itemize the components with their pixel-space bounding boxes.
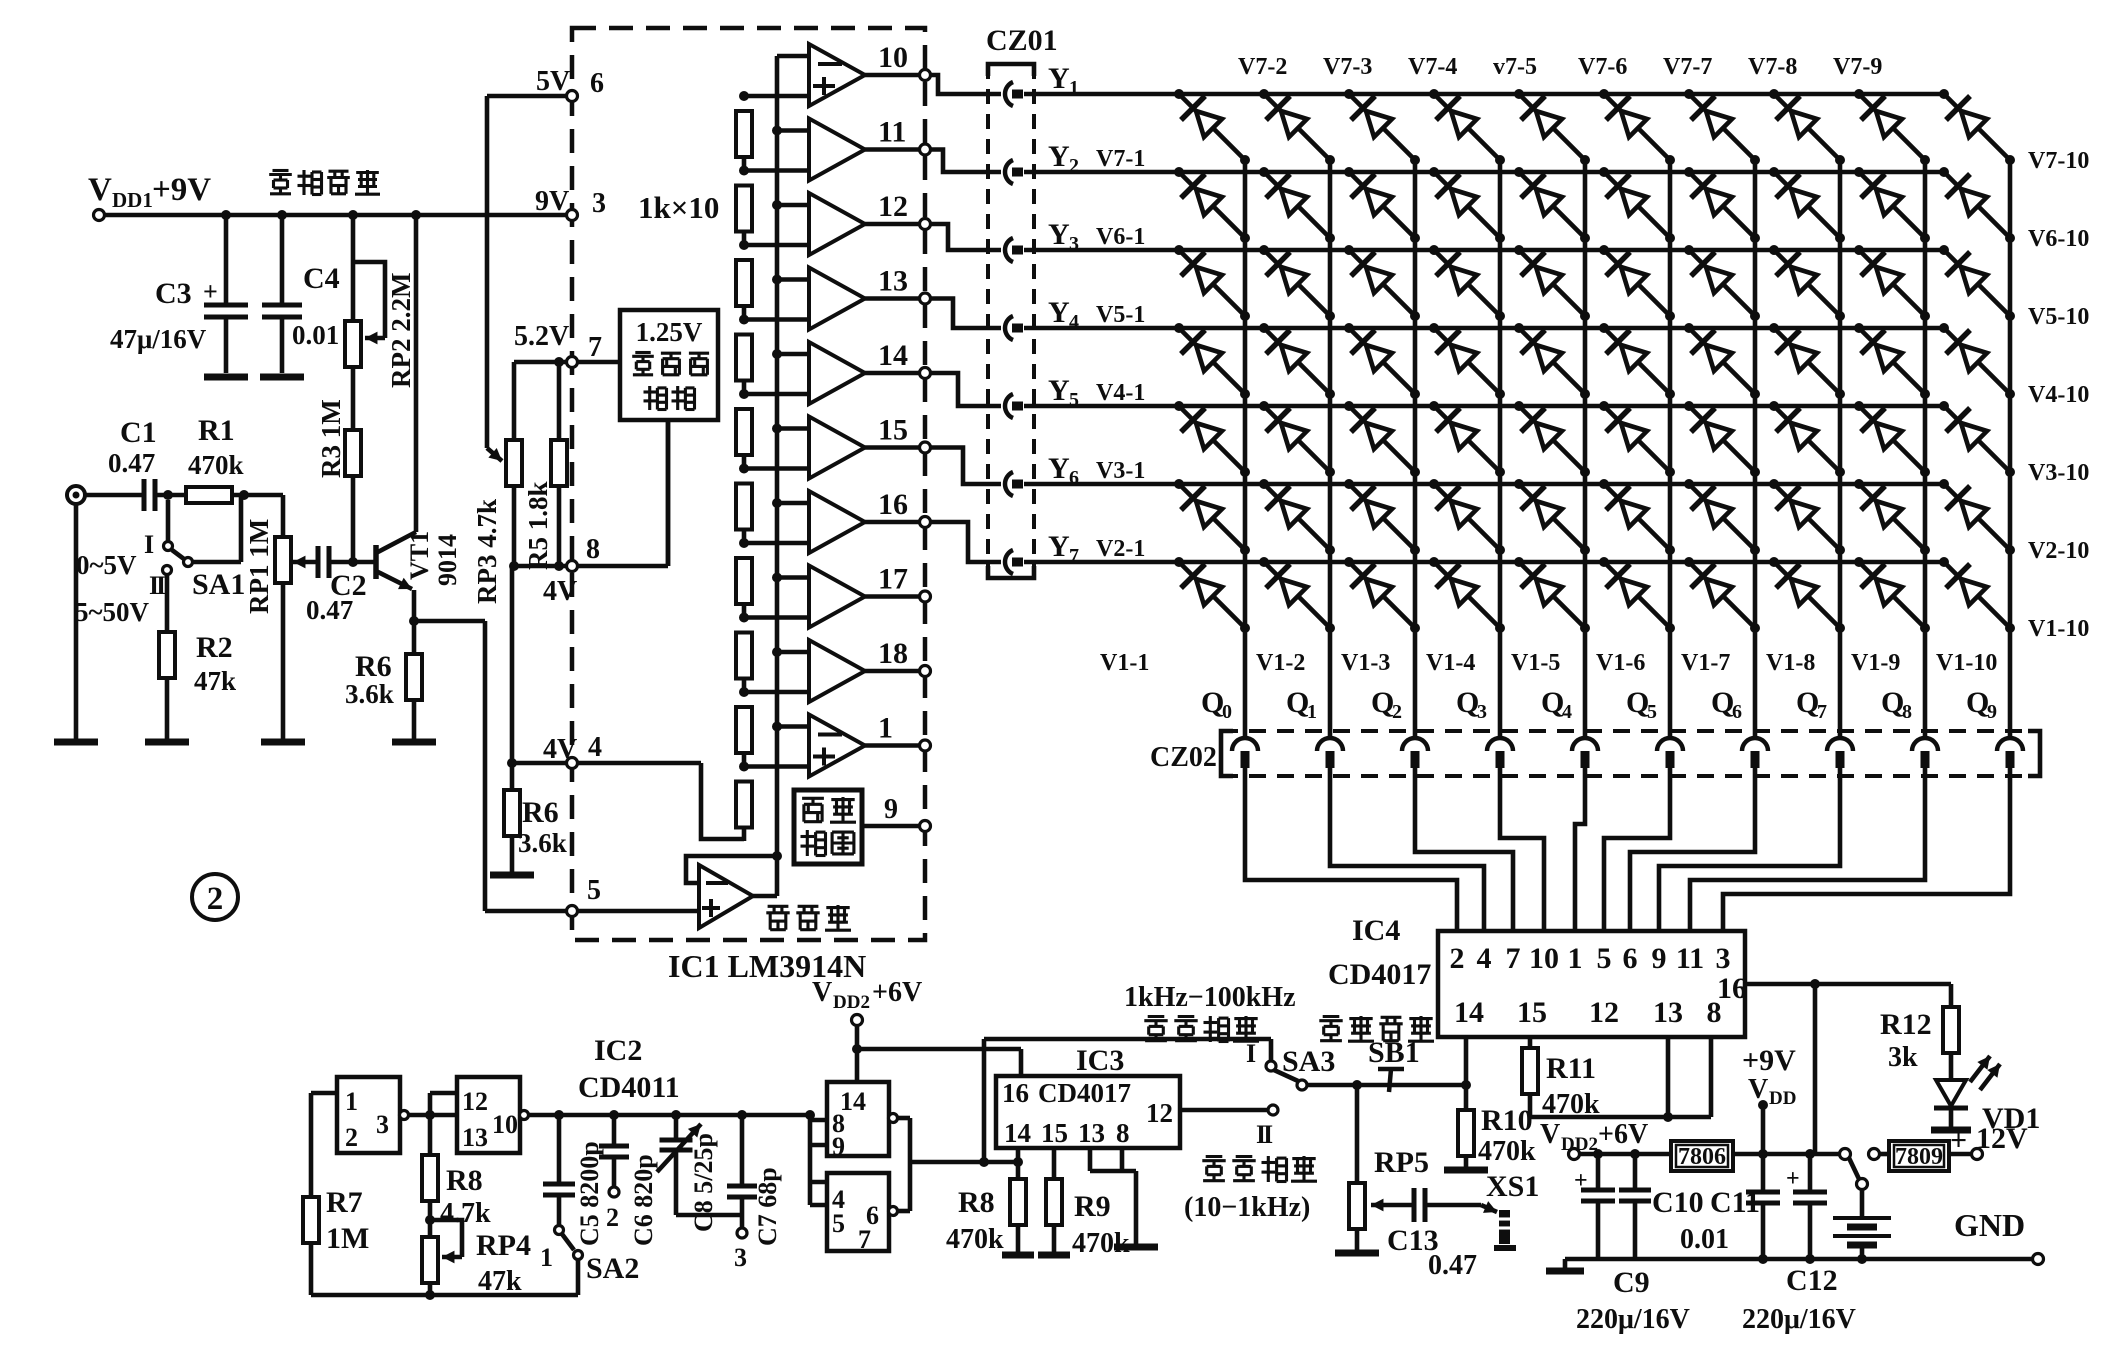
resistor R6 3.6k (emitter) xyxy=(392,621,436,742)
connector CZ01 contact Y3 xyxy=(1005,238,1023,262)
label V7-1 xyxy=(1096,146,1145,172)
label Y4 xyxy=(1048,296,1079,333)
LED V4-8 xyxy=(1769,323,1845,399)
svg-text:C10: C10 xyxy=(1652,1186,1704,1219)
svg-text:R6: R6 xyxy=(522,796,559,829)
wire column Q6 xyxy=(1753,160,1758,737)
LED V5-4 xyxy=(1429,245,1505,321)
svg-text:10: 10 xyxy=(1529,942,1559,975)
svg-text:DD1: DD1 xyxy=(112,188,153,212)
label V5-10 xyxy=(2028,304,2089,330)
LED V7-7 xyxy=(1684,89,1760,165)
label Q4 xyxy=(1541,686,1572,723)
wire pin 13 to Y4 xyxy=(930,299,1001,329)
label V1-9 bottom xyxy=(1851,650,1900,676)
resistor R6 3.6k (lower) xyxy=(490,763,534,875)
LED V5-9 xyxy=(1854,245,1930,321)
svg-text:Q: Q xyxy=(1456,686,1479,719)
resistor R5 1.8k xyxy=(551,357,567,571)
wire Q8 to IC4 pin 11 xyxy=(1690,768,1925,931)
IC3 CD4017 box xyxy=(996,1076,1180,1148)
svg-text:Q: Q xyxy=(1711,686,1734,719)
LED V3-1 xyxy=(1174,401,1250,477)
label range II 5~50V xyxy=(75,571,166,627)
svg-text:0~5V: 0~5V xyxy=(76,550,137,580)
regulator 7809 xyxy=(1869,1141,1983,1171)
svg-text:8: 8 xyxy=(1902,701,1912,723)
wire gate3/4 input bus xyxy=(810,1115,827,1205)
svg-text:Q: Q xyxy=(1201,686,1224,719)
wire row Y5 xyxy=(1024,404,1944,409)
wire gate1 input xyxy=(311,1093,337,1197)
wire column Q5 xyxy=(1668,160,1673,737)
svg-text:470k: 470k xyxy=(1478,1136,1536,1167)
label SA1 xyxy=(192,568,245,601)
label R12 3k xyxy=(1880,1008,1932,1073)
LED V4-4 xyxy=(1429,323,1505,399)
svg-text:5: 5 xyxy=(832,1209,845,1238)
comparator output pin 14 xyxy=(744,342,931,404)
comparator output pin 17 xyxy=(744,566,931,628)
svg-text:I: I xyxy=(144,530,154,559)
capacitor C13 0.47 xyxy=(1414,1188,1481,1222)
connector CZ02 contact Q3 xyxy=(1487,738,1513,768)
wire Q4 to IC4 pin 1 xyxy=(1575,768,1585,931)
label R10 470k xyxy=(1478,1104,1536,1167)
capacitor C2 0.47 xyxy=(318,546,376,578)
LED V6-10 xyxy=(1939,167,2015,243)
wire Q6 to IC4 pin 6 xyxy=(1630,768,1755,931)
label R3 1M xyxy=(316,399,346,478)
svg-text:Q: Q xyxy=(1881,686,1904,719)
svg-text:CD4017: CD4017 xyxy=(1038,1078,1131,1108)
svg-text:V7-10: V7-10 xyxy=(2028,148,2089,174)
LED V4-6 xyxy=(1599,323,1675,399)
pushbutton SB1 xyxy=(1378,1069,1404,1092)
svg-text:V1-4: V1-4 xyxy=(1426,650,1475,676)
label pin 1 xyxy=(878,712,893,745)
svg-text:SA2: SA2 xyxy=(586,1252,639,1285)
label contact II xyxy=(1256,1120,1273,1149)
svg-text:VT1: VT1 xyxy=(405,531,434,580)
svg-text:V: V xyxy=(88,172,112,208)
svg-text:17: 17 xyxy=(878,563,908,596)
label Y1 xyxy=(1048,62,1079,99)
label V1-1 xyxy=(1100,650,1149,676)
svg-text:13: 13 xyxy=(1653,996,1683,1029)
label SA2 and 1 xyxy=(540,1243,639,1285)
wire column Q2 xyxy=(1413,160,1418,737)
connector CZ02 contact Q5 xyxy=(1657,738,1683,768)
LED V1-10 xyxy=(1939,557,2015,633)
label C1 0.47 xyxy=(108,416,157,478)
label v7-5 xyxy=(1493,54,1537,80)
svg-text:V2-1: V2-1 xyxy=(1096,536,1145,562)
svg-text:1.25V: 1.25V xyxy=(636,317,703,347)
svg-text:8: 8 xyxy=(586,534,600,565)
label IC4 xyxy=(1352,914,1400,947)
label 1kHz-100kHz xyxy=(1124,982,1296,1013)
svg-text:1: 1 xyxy=(878,712,893,745)
svg-text:10: 10 xyxy=(878,41,908,74)
svg-text:R9: R9 xyxy=(1074,1190,1111,1223)
label C4 xyxy=(292,262,340,350)
wire row Y3 xyxy=(1024,248,1944,253)
svg-text:2: 2 xyxy=(606,1203,619,1232)
svg-text:6: 6 xyxy=(1732,701,1742,723)
svg-text:SA3: SA3 xyxy=(1282,1045,1335,1078)
svg-text:GND: GND xyxy=(1954,1207,2025,1243)
svg-text:R5 1.8k: R5 1.8k xyxy=(523,481,553,570)
label 1k x10 xyxy=(638,190,719,225)
label pin5 xyxy=(587,875,601,906)
label Q1 xyxy=(1286,686,1317,723)
connector CZ01 outline xyxy=(986,24,1058,578)
label V7-10 xyxy=(2028,148,2089,174)
svg-text:3.6k: 3.6k xyxy=(518,828,567,858)
label Q2 xyxy=(1371,686,1402,723)
LED V2-3 xyxy=(1344,479,1420,555)
label circled 2 xyxy=(192,874,238,920)
capacitor C1 0.47 xyxy=(144,479,186,511)
svg-text:16: 16 xyxy=(1002,1078,1029,1108)
label +12V xyxy=(1950,1122,2028,1157)
wire column Q9 xyxy=(2008,160,2013,737)
input terminal xyxy=(54,486,144,742)
svg-text:R12: R12 xyxy=(1880,1008,1932,1041)
LED V4-2 xyxy=(1259,323,1335,399)
label Y6 xyxy=(1048,452,1079,489)
LED V4-5 xyxy=(1514,323,1590,399)
svg-text:9014: 9014 xyxy=(433,534,462,586)
svg-text:11: 11 xyxy=(1676,942,1704,975)
svg-text:4: 4 xyxy=(1562,701,1572,723)
label 水平位移 xyxy=(1319,1016,1434,1042)
label SA3 xyxy=(1282,1045,1335,1078)
gate IC2d xyxy=(827,1173,898,1254)
label V7-3 xyxy=(1323,54,1372,80)
svg-text:V1-7: V1-7 xyxy=(1681,650,1730,676)
resistor R9 470k xyxy=(1038,1148,1070,1255)
svg-text:7: 7 xyxy=(858,1225,871,1254)
svg-text:+: + xyxy=(1950,1124,1967,1157)
svg-text:V1-2: V1-2 xyxy=(1256,650,1305,676)
svg-text:3k: 3k xyxy=(1888,1042,1918,1073)
LED V7-10 xyxy=(1939,89,2015,165)
LED V3-10 xyxy=(1939,401,2015,477)
svg-text:9: 9 xyxy=(1652,942,1667,975)
label V7-6 xyxy=(1578,54,1627,80)
label pin8 4V xyxy=(543,534,600,607)
svg-text:V7-6: V7-6 xyxy=(1578,54,1627,80)
LED V3-4 xyxy=(1429,401,1505,477)
label 缓冲器 xyxy=(766,905,851,931)
svg-text:V1-6: V1-6 xyxy=(1596,650,1645,676)
svg-text:V5-10: V5-10 xyxy=(2028,304,2089,330)
svg-text:V5-1: V5-1 xyxy=(1096,302,1145,328)
svg-text:1kHz−100kHz: 1kHz−100kHz xyxy=(1124,982,1296,1013)
connector CZ02 contact Q8 xyxy=(1912,738,1938,768)
svg-text:Y: Y xyxy=(1048,140,1070,173)
label RP2 2.2M xyxy=(386,273,416,388)
LED V6-4 xyxy=(1429,167,1505,243)
label pin6 5V xyxy=(536,66,604,99)
svg-text:RP4: RP4 xyxy=(476,1229,531,1262)
LED V3-7 xyxy=(1684,401,1760,477)
switch SA2 xyxy=(555,1226,583,1296)
label V1-5 bottom xyxy=(1511,650,1560,676)
LED V2-7 xyxy=(1684,479,1760,555)
svg-text:16: 16 xyxy=(878,488,908,521)
svg-text:V7-3: V7-3 xyxy=(1323,54,1372,80)
gate IC2a xyxy=(337,1077,409,1153)
wire pin8 to pin4 tie xyxy=(507,566,517,768)
pins IC1 left edge (6,3,7,8,4,5) xyxy=(567,91,578,917)
label pin 10 xyxy=(878,41,908,74)
label V5-1 xyxy=(1096,302,1145,328)
resistor ladder 1k x10 xyxy=(736,91,752,841)
LED V2-10 xyxy=(1939,479,2015,555)
svg-text:RP3 4.7k: RP3 4.7k xyxy=(472,499,502,604)
resistor R12 3k xyxy=(1943,984,1959,1080)
svg-text:12: 12 xyxy=(1589,996,1619,1029)
svg-text:2: 2 xyxy=(345,1123,358,1152)
svg-text:R10: R10 xyxy=(1481,1104,1533,1137)
svg-text:V6-1: V6-1 xyxy=(1096,224,1145,250)
connector CZ01 contact Y5 xyxy=(1005,394,1023,418)
LED V3-3 xyxy=(1344,401,1420,477)
LED V1-3 xyxy=(1344,557,1420,633)
LED V1-2 xyxy=(1259,557,1335,633)
svg-text:18: 18 xyxy=(878,637,908,670)
label V2-1 xyxy=(1096,536,1145,562)
terminal +6V rail xyxy=(1569,1149,1672,1160)
wire Q2 to IC4 pin 7 xyxy=(1415,768,1513,931)
label V1-10 xyxy=(2028,616,2089,642)
gate IC2c xyxy=(827,1082,898,1161)
svg-text:I: I xyxy=(1263,1120,1273,1149)
label pin3 9V xyxy=(535,186,606,219)
wire pin 11 to Y2 xyxy=(930,150,1001,173)
svg-text:IC1 LM3914N: IC1 LM3914N xyxy=(668,948,866,984)
svg-text:DD2: DD2 xyxy=(833,992,870,1013)
svg-text:5V: 5V xyxy=(536,66,570,97)
LED V2-1 xyxy=(1174,479,1250,555)
LED V1-9 xyxy=(1854,557,1930,633)
LED V5-3 xyxy=(1344,245,1420,321)
LED V1-8 xyxy=(1769,557,1845,633)
label IC3 xyxy=(1076,1044,1124,1077)
label pin 18 xyxy=(878,637,908,670)
potentiometer RP3 4.7k xyxy=(487,362,522,571)
svg-text:8: 8 xyxy=(1116,1118,1130,1148)
wire Q9 to IC4 pin 3 xyxy=(1723,768,2010,931)
svg-text:v7-5: v7-5 xyxy=(1493,54,1537,80)
label V1-3 bottom xyxy=(1341,650,1390,676)
label V1-7 bottom xyxy=(1681,650,1730,676)
svg-text:R1: R1 xyxy=(198,414,235,447)
LED V1-1 xyxy=(1174,557,1250,633)
label VT1 9014 xyxy=(405,531,462,586)
svg-text:C6 820p: C6 820p xyxy=(629,1154,658,1246)
LED V5-7 xyxy=(1684,245,1760,321)
resistor R7 1M xyxy=(303,1197,319,1295)
label pin 16 xyxy=(878,488,908,521)
svg-text:3: 3 xyxy=(734,1243,747,1272)
wire Q7 to IC4 pin 9 xyxy=(1659,768,1840,931)
potentiometer RP4 47k xyxy=(422,1215,462,1295)
label (10-1kHz) xyxy=(1184,1192,1310,1223)
LED V6-1 xyxy=(1174,167,1250,243)
label RP1 1M xyxy=(244,519,274,614)
labels IC4 bottom pins xyxy=(1454,996,1722,1029)
LED V5-6 xyxy=(1599,245,1675,321)
svg-text:CD4011: CD4011 xyxy=(578,1071,680,1104)
label pin 17 xyxy=(878,563,908,596)
svg-text:4: 4 xyxy=(1477,942,1492,975)
svg-text:V3-1: V3-1 xyxy=(1096,458,1145,484)
label pin 14 xyxy=(878,339,908,372)
LED V7-6 xyxy=(1599,89,1675,165)
block mode-select 模式选择 xyxy=(794,790,931,864)
label C5 8200p xyxy=(575,1141,604,1246)
connector CZ02 contact Q6 xyxy=(1742,738,1768,768)
label V6-1 xyxy=(1096,224,1145,250)
wire osc feedback rail xyxy=(311,1290,578,1300)
capacitor C5 8200p xyxy=(543,1115,575,1225)
svg-text:RP2 2.2M: RP2 2.2M xyxy=(386,273,416,388)
svg-text:7809: 7809 xyxy=(1895,1144,1943,1170)
connector CZ01 contact Y2 xyxy=(1005,160,1023,184)
svg-text:+9V: +9V xyxy=(1742,1044,1796,1077)
wire pin7 line xyxy=(514,360,620,365)
svg-text:XS1: XS1 xyxy=(1486,1170,1539,1203)
wire column Q7 xyxy=(1838,160,1843,737)
resistor R1 470k xyxy=(186,487,283,537)
svg-text:4V: 4V xyxy=(543,576,577,607)
svg-text:Y: Y xyxy=(1048,62,1070,95)
label IC2 CD4011 xyxy=(578,1034,680,1104)
svg-text:0.01: 0.01 xyxy=(1680,1224,1729,1255)
regulator 7806 xyxy=(1671,1141,1733,1171)
wire column Q1 xyxy=(1328,160,1333,737)
svg-text:V3-10: V3-10 xyxy=(2028,460,2089,486)
svg-text:5: 5 xyxy=(587,875,601,906)
svg-text:1: 1 xyxy=(345,1087,358,1116)
label R9 470k xyxy=(1072,1190,1130,1259)
LED V6-3 xyxy=(1344,167,1420,243)
label Q9 xyxy=(1966,686,1997,723)
label V1-4 bottom xyxy=(1426,650,1475,676)
label Q5 xyxy=(1626,686,1657,723)
svg-text:12: 12 xyxy=(462,1087,488,1116)
svg-text:47k: 47k xyxy=(194,666,236,696)
label pin 11 xyxy=(878,116,906,149)
label contact I xyxy=(1246,1039,1256,1068)
svg-text:10: 10 xyxy=(492,1110,518,1139)
svg-text:9: 9 xyxy=(832,1132,845,1161)
label R6 3.6k lower xyxy=(518,796,567,858)
svg-text:1: 1 xyxy=(1568,942,1583,975)
label V7-4 xyxy=(1408,54,1457,80)
label +9V VDD xyxy=(1742,1044,1796,1109)
svg-text:Y: Y xyxy=(1048,530,1070,563)
LED V4-1 xyxy=(1174,323,1250,399)
comparator output pin 11 xyxy=(744,119,931,181)
svg-text:7: 7 xyxy=(1817,701,1827,723)
transistor VT1 9014 xyxy=(376,215,416,619)
svg-text:9: 9 xyxy=(1987,701,1997,723)
svg-text:CZ02: CZ02 xyxy=(1150,742,1217,773)
LED V6-7 xyxy=(1684,167,1760,243)
wire column Q0 xyxy=(1243,160,1248,737)
svg-text:V: V xyxy=(1748,1074,1768,1105)
svg-text:+: + xyxy=(1786,1166,1800,1192)
svg-text:V7-2: V7-2 xyxy=(1238,54,1287,80)
svg-text:9: 9 xyxy=(884,794,898,825)
svg-text:15: 15 xyxy=(878,414,908,447)
wire column Q8 xyxy=(1923,160,1928,737)
switch SA1 xyxy=(163,497,242,632)
svg-text:R3 1M: R3 1M xyxy=(316,399,346,478)
label C10 C11 0.01 xyxy=(1652,1186,1760,1255)
label V7-9 xyxy=(1833,54,1882,80)
LED V7-3 xyxy=(1344,89,1420,165)
LED VD1 xyxy=(1931,1056,2000,1130)
label V6-10 xyxy=(2028,226,2089,252)
capacitor C6 820p xyxy=(599,1115,629,1197)
svg-text:I: I xyxy=(156,571,166,600)
label R6 3.6k xyxy=(345,650,394,709)
svg-text:C3: C3 xyxy=(155,277,192,310)
LED V7-8 xyxy=(1769,89,1845,165)
switch SA3 xyxy=(1266,1061,1466,1090)
label pin 9 xyxy=(884,794,898,825)
svg-text:220μ/16V: 220μ/16V xyxy=(1576,1304,1690,1335)
svg-text:3: 3 xyxy=(376,1110,389,1139)
svg-text:+6V: +6V xyxy=(1598,1119,1648,1150)
label GND xyxy=(1954,1207,2025,1243)
label VDD2+6V net xyxy=(1540,1119,1648,1155)
resistor R2 47k xyxy=(145,632,189,742)
svg-text:C7 68p: C7 68p xyxy=(753,1167,782,1246)
label Y7 xyxy=(1048,530,1079,567)
svg-text:V4-10: V4-10 xyxy=(2028,382,2089,408)
LED V6-5 xyxy=(1514,167,1590,243)
svg-text:CD4017: CD4017 xyxy=(1328,958,1431,991)
svg-text:15: 15 xyxy=(1041,1118,1068,1148)
wire +9V rail xyxy=(1733,1149,1840,1159)
LED V2-6 xyxy=(1599,479,1675,555)
wire row Y1 xyxy=(1024,92,1944,97)
label V2-10 xyxy=(2028,538,2089,564)
label pin7 5.2V xyxy=(514,321,602,363)
switch power xyxy=(1840,1149,1868,1190)
svg-text:6: 6 xyxy=(1623,942,1638,975)
svg-text:Y: Y xyxy=(1048,218,1070,251)
label Y2 xyxy=(1048,140,1079,177)
svg-text:V7-8: V7-8 xyxy=(1748,54,1797,80)
svg-text:3: 3 xyxy=(1477,701,1487,723)
svg-text:0.47: 0.47 xyxy=(108,448,155,478)
svg-text:C1: C1 xyxy=(120,416,157,449)
jack XS1 xyxy=(1481,1201,1516,1248)
label range I 0~5V xyxy=(76,530,154,580)
node VDD1 +9V supply rail xyxy=(94,210,573,221)
svg-text:0: 0 xyxy=(1222,701,1232,723)
label V1-2 bottom xyxy=(1256,650,1305,676)
svg-text:V: V xyxy=(812,977,832,1008)
